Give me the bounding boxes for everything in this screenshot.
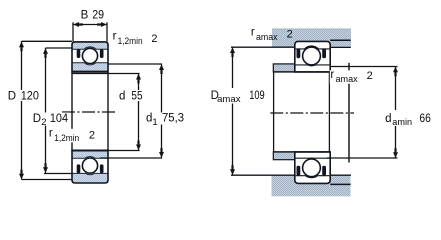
- D extension top: [22, 40, 73, 42]
- svg-text:r: r: [330, 69, 334, 81]
- D2 arrow down: [43, 163, 48, 173]
- right figure top bearing: [295, 41, 330, 72]
- outer ring bottom section (blue): [72, 173, 108, 183]
- d1 extension bottom: [100, 157, 162, 159]
- svg-text:109: 109: [249, 90, 265, 102]
- svg-text:2: 2: [367, 70, 373, 82]
- B dimension line: [73, 24, 107, 26]
- svg-text:75,3: 75,3: [162, 113, 184, 125]
- groove arc outer bottom-right: [306, 176, 318, 178]
- shaft top line: [273, 71, 330, 73]
- svg-text:D: D: [8, 90, 16, 102]
- svg-text:B: B: [81, 9, 89, 21]
- label r amax 2 (middle right): [330, 70, 375, 84]
- svg-text:29: 29: [92, 9, 104, 21]
- svg-text:r: r: [113, 31, 117, 43]
- cage bar bottom-right-figure left: [297, 166, 301, 176]
- D arrow down: [19, 170, 24, 180]
- label r 1,2min 2 (bottom): [48, 129, 97, 143]
- inner ring bottom section (blue): [72, 151, 108, 158]
- svg-text:104: 104: [50, 113, 69, 125]
- label d 55: [117, 90, 145, 102]
- ball bottom: [82, 158, 97, 173]
- svg-text:amax: amax: [336, 74, 358, 85]
- bottom bearing outline right-figure: [295, 152, 330, 184]
- svg-text:amax: amax: [217, 94, 241, 105]
- d1 dimension line: [161, 64, 163, 158]
- bottom section outline: [72, 150, 108, 183]
- svg-text:66: 66: [419, 113, 431, 125]
- d1 arrow up: [159, 64, 164, 74]
- shaft shoulder top (blue): [273, 64, 295, 72]
- outer ring bottom edge line top-right bearing: [296, 48, 330, 50]
- svg-text:D: D: [33, 113, 41, 125]
- damin extension bottom: [327, 157, 398, 159]
- svg-text:2: 2: [151, 33, 157, 45]
- housing top-left lobe bottom edge: [231, 46, 295, 48]
- svg-text:r: r: [251, 27, 255, 39]
- d arrow down: [136, 141, 141, 151]
- D arrow up: [19, 42, 24, 52]
- svg-text:d: d: [119, 90, 125, 102]
- bore wall left: [71, 72, 73, 150]
- groove arc outer top-right: [305, 46, 319, 49]
- ball top right-figure: [303, 47, 321, 65]
- label D 120: [7, 90, 41, 102]
- right figure bottom bearing: [295, 152, 330, 184]
- shaft right edge: [328, 72, 330, 152]
- d arrow up: [136, 74, 141, 84]
- svg-text:55: 55: [131, 90, 142, 102]
- damin arrow down: [393, 148, 398, 158]
- housing band bottom (blue): [272, 175, 351, 196]
- B arrow left: [73, 22, 83, 27]
- D dimension line: [21, 41, 23, 179]
- Damax arrow up: [230, 47, 235, 57]
- svg-text:1,2min: 1,2min: [54, 133, 79, 144]
- cage bar bottom-left: [77, 164, 81, 173]
- D2 extension bottom: [44, 173, 73, 175]
- Damax dimension line: [232, 47, 234, 175]
- cage bar bottom-right: [100, 164, 104, 173]
- label d1 75,3: [144, 113, 185, 128]
- housing band top (blue): [272, 29, 351, 48]
- svg-text:120: 120: [21, 90, 39, 102]
- shaft shoulder bottom (blue): [273, 152, 295, 160]
- label damin 66: [383, 110, 433, 128]
- housing bore line right of bottom bearing: [330, 183, 350, 185]
- svg-text:1,2min: 1,2min: [118, 36, 143, 47]
- svg-text:amax: amax: [256, 32, 278, 43]
- left figure top section: [72, 42, 108, 72]
- outer ring top section (blue): [72, 42, 108, 49]
- svg-text:r: r: [49, 128, 53, 140]
- bore wall right: [107, 72, 109, 150]
- top section outline: [72, 42, 108, 72]
- d dimension line: [138, 74, 140, 151]
- D2 dimension line: [45, 48, 47, 174]
- svg-text:2: 2: [89, 130, 95, 142]
- inner ring top section (blue): [72, 63, 108, 71]
- damin arrow up: [393, 67, 398, 77]
- D2 extension top: [46, 47, 73, 49]
- shaft left edge: [273, 72, 275, 152]
- svg-text:2: 2: [287, 28, 293, 40]
- damin dimension line: [395, 67, 397, 159]
- d extension top: [73, 73, 140, 75]
- cage bar top-right: [100, 49, 104, 58]
- outer ring top edge line bottom-right bearing: [296, 175, 330, 177]
- svg-text:d: d: [385, 113, 391, 125]
- ball top: [82, 48, 97, 63]
- inner ring bottom edge line bottom-right bearing: [296, 157, 330, 159]
- D2 arrow up: [43, 48, 48, 58]
- housing bottom-right lobe top edge: [330, 174, 351, 176]
- B arrow right: [97, 22, 107, 27]
- d extension bottom: [100, 150, 140, 152]
- ball bottom right-figure: [303, 159, 321, 177]
- inner ring top edge line top-right bearing: [296, 64, 330, 67]
- abutment boundary vertical line x=349: [348, 63, 350, 163]
- d1 arrow down: [159, 148, 164, 158]
- svg-text:2: 2: [41, 117, 46, 128]
- Damax arrow down: [230, 165, 235, 175]
- d1 extension top: [108, 63, 162, 65]
- housing band top upper edge tint: [272, 28, 351, 30]
- centerline right figure: [270, 112, 354, 114]
- D extension bottom: [22, 179, 73, 181]
- cage bar top-left: [77, 49, 81, 58]
- B extension line left: [72, 22, 74, 41]
- cage bar bottom-right-figure right: [322, 166, 326, 176]
- housing top-right lobe bottom edge: [330, 46, 351, 48]
- svg-text:1: 1: [152, 117, 157, 128]
- svg-text:amin: amin: [392, 117, 412, 128]
- cage bar top-right-figure left: [297, 48, 301, 58]
- top bearing outline right-figure: [295, 41, 330, 72]
- centerline left figure: [62, 111, 118, 113]
- damin extension top: [330, 66, 397, 68]
- B extension line right: [106, 22, 108, 41]
- shaft bottom line: [273, 151, 330, 153]
- housing bottom-left lobe top edge: [231, 174, 295, 176]
- cage bar top-right-figure right: [322, 48, 326, 58]
- housing bore line right of top bearing: [330, 39, 350, 41]
- left figure bottom section: [72, 150, 108, 183]
- label Damax 109: [209, 88, 269, 105]
- label D2 104: [31, 113, 70, 129]
